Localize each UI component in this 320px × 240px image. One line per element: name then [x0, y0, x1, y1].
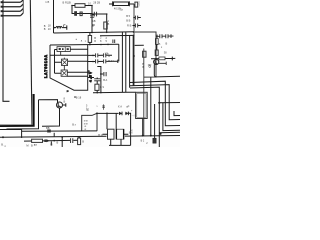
- wire vertical x133.2: [132, 36, 134, 86]
- wire y87.7: [130, 87, 159, 147]
- IC inner rail: [54, 50, 56, 74]
- wire corner left: [0, 129, 22, 137]
- resistor R10: [159, 57, 165, 60]
- node: [154, 139, 156, 141]
- svg-text:—|: —|: [132, 115, 135, 117]
- svg-text:28 2B: 28 2B: [93, 1, 100, 5]
- wire x142.7: [142, 119, 144, 136]
- node: [89, 44, 91, 46]
- node: [96, 113, 98, 115]
- node: [100, 44, 102, 46]
- svg-text:B B: B B: [126, 19, 130, 23]
- wire vertical x92: [91, 6, 93, 33]
- dark component bottom right: [153, 138, 156, 143]
- node: [133, 31, 135, 33]
- node: [61, 140, 63, 142]
- wire stair x162.9: [163, 103, 180, 131]
- block A2 mark: [62, 60, 67, 65]
- node: [106, 32, 108, 34]
- pin mark: [64, 25, 66, 28]
- wire x62.2: [61, 137, 63, 147]
- svg-text:BB: BB: [46, 126, 50, 130]
- inductor L1 row: [54, 25, 67, 29]
- filter end bars: [113, 1, 130, 6]
- wire top row: [72, 5, 92, 7]
- wire vertical x122.4: [121, 32, 123, 92]
- capacitor C9: [96, 59, 98, 63]
- svg-text:aP: aP: [126, 105, 129, 109]
- node: [106, 13, 108, 15]
- resistor R9: [155, 39, 158, 45]
- Q1 bar: [57, 103, 59, 107]
- wire diode row y113.5: [97, 112, 128, 114]
- svg-text:R: R: [94, 39, 96, 43]
- diode D3 bar: [121, 112, 123, 116]
- wire branch x100.9: [97, 67, 101, 93]
- svg-text:BR: BR: [92, 23, 96, 27]
- svg-text:B.: B.: [1, 143, 4, 147]
- node: [133, 55, 135, 57]
- svg-text:1B: 1B: [92, 19, 95, 23]
- big box inner line: [0, 94, 32, 125]
- wire x154.6: [154, 104, 156, 140]
- component small box top right: [135, 2, 138, 7]
- capacitor C6: [113, 40, 115, 44]
- node: [91, 13, 93, 15]
- svg-text:8Ω: 8Ω: [86, 108, 89, 111]
- svg-text:B Ω: B Ω: [98, 133, 102, 137]
- block A3 mark: [62, 71, 67, 76]
- svg-text:B: B: [166, 41, 168, 45]
- wire pin row y77.5: [88, 77, 94, 79]
- wire: [128, 113, 130, 145]
- wire rail x134: [133, 4, 135, 86]
- wire left rail: [3, 0, 10, 101]
- svg-text:DR: DR: [148, 63, 152, 67]
- resistor R8: [78, 138, 81, 145]
- transformer T1 secondary: [116, 129, 124, 139]
- wire row y55.4: [88, 54, 112, 56]
- capacitor C7: [96, 53, 98, 57]
- node: [96, 92, 98, 94]
- box U2 outline: [135, 32, 156, 77]
- box U3: [136, 92, 148, 118]
- T1 leads: [103, 133, 129, 135]
- wire y35.6: [100, 34, 134, 36]
- component D1: [74, 11, 77, 16]
- node: [21, 136, 23, 138]
- node: [159, 133, 161, 135]
- connector ribbon wires: [3, 0, 23, 16]
- Q1 inner mark: [59, 106, 62, 108]
- capacitor C10: [104, 59, 106, 63]
- IC U1 box: [50, 45, 88, 91]
- node: [133, 17, 135, 19]
- node: [133, 35, 135, 37]
- Q1 collector: [63, 103, 66, 107]
- node: [92, 61, 94, 63]
- node: [53, 140, 55, 142]
- IC stubs: [61, 52, 65, 71]
- svg-text:B: B: [31, 143, 33, 147]
- node: [155, 58, 157, 60]
- node: [100, 92, 102, 94]
- pin circle: [149, 66, 151, 68]
- diode D6: [44, 140, 46, 143]
- component on y131: [47, 130, 51, 133]
- capacitor C1: [90, 15, 94, 17]
- wire row y61.5: [88, 60, 118, 62]
- diode D4 bar: [127, 112, 129, 116]
- capacitor C12: [94, 79, 100, 81]
- resistor R3: [88, 36, 91, 43]
- diode D5: [47, 139, 50, 142]
- node: [92, 55, 94, 57]
- capacitor C2: [94, 12, 96, 17]
- component mark: [51, 141, 52, 145]
- wire transformer tops: [107, 113, 116, 129]
- svg-text:B: B: [64, 99, 66, 103]
- wire y132.6: [159, 131, 180, 133]
- wire vertical x129.6 staircase: [129, 36, 131, 88]
- tiny text layer: [1, 0, 167, 148]
- wire: [96, 78, 98, 93]
- svg-text:B 5: B 5: [126, 14, 130, 18]
- capacitor C14: [71, 138, 73, 143]
- svg-text:1 B: 1 B: [45, 0, 49, 4]
- resistor R2: [104, 22, 107, 29]
- node: [106, 113, 108, 115]
- wire Q2 emitter curve: [154, 64, 180, 77]
- resistor R7: [32, 139, 43, 142]
- node: [158, 102, 160, 104]
- node: [150, 135, 152, 137]
- wire base Q1: [39, 100, 58, 103]
- block A2: [62, 59, 68, 65]
- Q1 emitter wire: [42, 108, 60, 126]
- wire y14: [92, 14, 107, 32]
- wire y85.6: [130, 85, 180, 120]
- node: [107, 44, 109, 46]
- wire: [109, 3, 134, 5]
- node: [142, 135, 144, 137]
- svg-text:LA76810A: LA76810A: [44, 54, 48, 78]
- node: [100, 73, 102, 75]
- svg-text:R B: R B: [127, 24, 132, 28]
- wire Q2 collector: [159, 62, 166, 65]
- wire long horizontal y33: [54, 32, 135, 33]
- wire y82.3: [130, 81, 180, 126]
- diode D3: [119, 112, 122, 116]
- capacitor C8: [104, 53, 106, 57]
- wire row y141: [24, 139, 78, 142]
- node: [74, 96, 76, 98]
- capacitor C3: [134, 16, 141, 20]
- inductor L1: [56, 26, 62, 27]
- wire IC top / y44.5: [50, 43, 119, 46]
- wire row y58.6: [151, 57, 175, 59]
- svg-text:B 9: B 9: [100, 85, 104, 89]
- node: [91, 32, 93, 34]
- wire bottom y145.4: [109, 144, 131, 146]
- box U3 inner: [137, 94, 146, 118]
- transformer T1 primary: [108, 129, 115, 139]
- wire y103: [159, 102, 180, 104]
- block A1: [57, 47, 70, 52]
- wire vertical x125.8: [125, 32, 127, 92]
- capacitor C15 symbol: [102, 104, 105, 109]
- connector pads: [1, 1, 4, 17]
- svg-text:B: B: [57, 140, 59, 144]
- wire x150.8: [150, 77, 152, 135]
- node: [2, 136, 4, 138]
- wire: [111, 139, 121, 145]
- R3 leads: [89, 33, 91, 45]
- svg-text:B: B: [44, 27, 46, 31]
- tick: [53, 133, 55, 137]
- transistor Q2: [154, 59, 159, 64]
- block A1 divider: [64, 47, 66, 52]
- wire rail link y45.3: [135, 44, 144, 46]
- wire: [156, 44, 158, 50]
- component D2: [80, 12, 82, 16]
- svg-text:B?: B?: [34, 143, 38, 147]
- capacitor C11: [101, 72, 106, 76]
- big box bottom-left thick: [0, 94, 34, 126]
- wire pin row y72: [88, 70, 89, 74]
- svg-text:B: B: [108, 22, 110, 26]
- wire y115.6: [174, 111, 180, 116]
- wire: [72, 6, 92, 14]
- svg-text:M: M: [26, 144, 28, 147]
- capacitor C4: [133, 24, 142, 28]
- block A1 marks: [59, 48, 69, 50]
- speaker box: [82, 113, 97, 131]
- svg-text:B 04: B 04: [108, 59, 114, 63]
- node: [71, 5, 73, 7]
- node: [53, 27, 55, 29]
- svg-text:X A: X A: [118, 105, 122, 109]
- wire rail C: [53, 0, 55, 33]
- wire y131 long: [22, 130, 97, 132]
- svg-text:B R|1B: B R|1B: [63, 0, 71, 4]
- svg-text:M: M: [50, 143, 52, 147]
- node: [133, 25, 135, 27]
- wire rail B: [30, 0, 32, 125]
- wire vertical x118.8: [118, 44, 120, 61]
- Q2 inner mark: [155, 63, 158, 64]
- transistor Q1: [57, 102, 63, 108]
- resistor R4: [95, 84, 99, 90]
- capacitor C5 series pair: [156, 34, 174, 38]
- nested corner 2: [7, 100, 39, 129]
- resistor R6: [155, 50, 158, 55]
- node: [91, 5, 93, 7]
- diode D4: [125, 112, 128, 116]
- pin bar: [90, 76, 92, 79]
- transformer marks above Q1: [67, 90, 69, 92]
- resistor R5: [143, 51, 146, 57]
- node: [78, 136, 80, 138]
- svg-text:B: B: [82, 140, 84, 144]
- end tick: [117, 60, 119, 63]
- IC pin wires: [50, 49, 88, 76]
- wire y137 long: [0, 136, 180, 138]
- block A3: [61, 70, 67, 76]
- Q2 base bar: [154, 60, 156, 63]
- ceramic filter X1: [114, 2, 129, 6]
- svg-text:B A: B A: [103, 78, 107, 82]
- wire vertical x143.8: [143, 49, 145, 136]
- wire long y92.5: [93, 91, 136, 94]
- svg-text:B: B: [108, 54, 110, 58]
- resistor R1: [75, 4, 85, 8]
- node: [61, 136, 63, 138]
- capacitor C13 bar: [171, 57, 173, 61]
- node: [96, 113, 98, 115]
- svg-text:B 18: B 18: [76, 95, 82, 99]
